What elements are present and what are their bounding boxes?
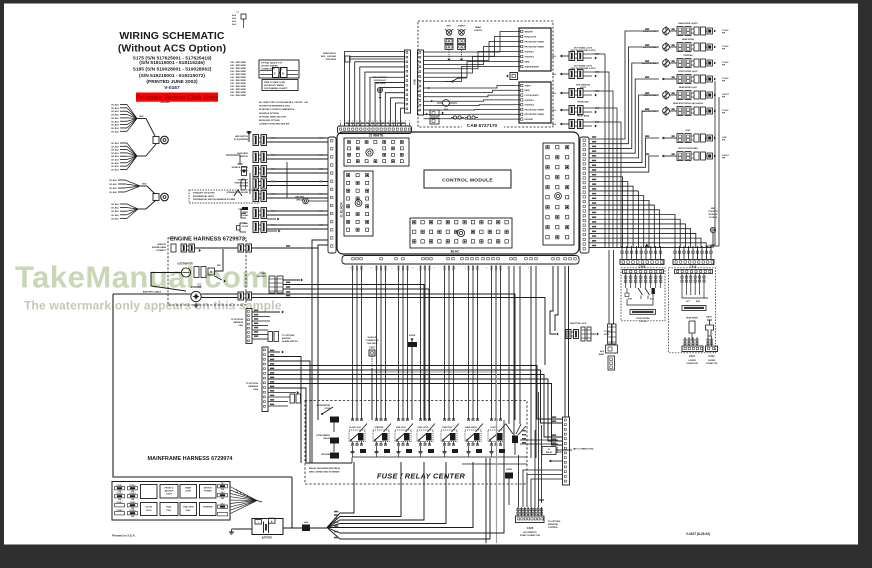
- svg-text:CONNECT: CONNECT: [156, 250, 167, 252]
- svg-text:1: 1: [455, 268, 456, 270]
- svg-text:THIS PAGE: THIS PAGE: [325, 58, 336, 61]
- connector C410 pins: [674, 246, 676, 259]
- engine harness boundary: [168, 238, 246, 305]
- fuel wires: [283, 279, 300, 281]
- cab wire mesh: [424, 32, 514, 53]
- svg-text:161-BLK: 161-BLK: [111, 146, 120, 148]
- svg-text:GLOW PLUG: GLOW PLUG: [349, 427, 361, 429]
- fuse panel: [112, 482, 230, 521]
- connector C409: [620, 260, 664, 265]
- C409 switches: [626, 288, 628, 293]
- connector C426 pins: [517, 507, 519, 516]
- svg-text:START: START: [525, 84, 532, 87]
- starter wires: [202, 293, 239, 295]
- svg-text:FUSE-7: FUSE-7: [117, 502, 123, 504]
- svg-text:TAIL/GATE REAR: TAIL/GATE REAR: [641, 62, 657, 65]
- J2 right fan to lamp rows: [589, 31, 659, 139]
- svg-text:ENGINE HARNESS 6729973: ENGINE HARNESS 6729973: [170, 237, 245, 243]
- J3 grid bottom: [410, 218, 512, 248]
- svg-text:MODULE: MODULE: [368, 337, 377, 339]
- svg-text:1: 1: [465, 268, 466, 270]
- svg-text:HARNESS: HARNESS: [233, 321, 243, 324]
- connector C303: [238, 292, 244, 300]
- svg-text:SHOWN NOT MATED: SHOWN NOT MATED: [264, 84, 285, 87]
- relay ground bus: [352, 456, 527, 458]
- svg-text:161-BLK: 161-BLK: [111, 169, 120, 171]
- svg-text:PULL: PULL: [186, 510, 192, 512]
- mainframe boundary right leg: [291, 478, 293, 528]
- ground symbol battery: [232, 528, 253, 530]
- svg-text:1: 1: [486, 268, 487, 270]
- traction lock feed wire: [550, 266, 556, 334]
- lamp drop wire 2: [707, 97, 719, 248]
- J2 grid right: [543, 143, 574, 245]
- C404 wire to C402 pin3: [268, 375, 562, 438]
- ring terminal 1: [153, 137, 159, 144]
- front wiper module label: [630, 310, 656, 315]
- svg-text:SEE: SEE: [711, 208, 716, 210]
- wire: [120, 162, 127, 164]
- battery distribution fan: [327, 462, 354, 528]
- module right pin strip: [580, 137, 589, 253]
- svg-text:DIFFERENTIAL SWITCH HARNESS ST: DIFFERENTIAL SWITCH HARNESS STONER: [193, 198, 236, 201]
- svg-text:C411: C411: [689, 355, 695, 358]
- C426 feeder wires: [518, 455, 520, 507]
- svg-text:161-BLK: 161-BLK: [111, 215, 120, 217]
- C426 top link: [541, 500, 543, 503]
- svg-text:SWITCH: SWITCH: [204, 487, 212, 489]
- wire: [267, 172, 328, 174]
- svg-text:CA1 - RED WIRE: CA1 - RED WIRE: [230, 61, 246, 64]
- svg-text:FLOW: FLOW: [242, 226, 248, 228]
- svg-text:1: 1: [423, 268, 424, 270]
- svg-text:SYSTEM-1: SYSTEM-1: [525, 100, 534, 102]
- svg-text:ALTERNATOR: ALTERNATOR: [177, 263, 193, 266]
- svg-text:DATA: DATA: [525, 89, 531, 92]
- svg-text:+: +: [271, 520, 273, 524]
- svg-text:TO OPTIONS: TO OPTIONS: [246, 383, 259, 385]
- svg-text:CONNECTOR: CONNECTOR: [686, 363, 698, 365]
- svg-text:FRONT WIPER: FRONT WIPER: [636, 318, 650, 320]
- svg-text:1: 1: [528, 268, 529, 270]
- connector C411: [682, 346, 703, 352]
- left drop pair: [312, 240, 328, 463]
- svg-text:STRAIGHT OR IN-TINE: STRAIGHT OR IN-TINE: [193, 192, 215, 195]
- svg-text:GROUND: GROUND: [525, 119, 534, 121]
- C404 lower connector: [290, 394, 295, 403]
- wire: [267, 224, 328, 226]
- light switch: [453, 78, 458, 81]
- wire: [195, 247, 238, 249]
- fuse panel blank cell: [141, 485, 158, 499]
- svg-text:C407: C407: [369, 347, 375, 350]
- connector C403: [246, 309, 252, 344]
- switch row drop wires: [594, 54, 605, 248]
- fuse panel harness loom: [230, 487, 257, 501]
- svg-text:THERMOSTAT: THERMOSTAT: [234, 182, 248, 185]
- cab to module wire bundle: [345, 52, 406, 127]
- svg-text:CONTROL MODULE: CONTROL MODULE: [442, 178, 493, 184]
- C404 gray wire: [374, 371, 497, 373]
- svg-text:S185 (S/N 519028001 - 51902806: S185 (S/N 519028001 - 519028062): [133, 67, 212, 73]
- fuse panel cell STARTER: [200, 503, 217, 516]
- svg-text:(IF EQUIPPED): (IF EQUIPPED): [234, 139, 248, 141]
- svg-text:161-BLK: 161-BLK: [111, 143, 120, 145]
- svg-text:N-PIN: N-PIN: [604, 334, 610, 336]
- J1 grid left: [344, 171, 373, 236]
- svg-text:HORN: HORN: [506, 469, 512, 471]
- svg-text:PROTECTED POWER: PROTECTED POWER: [525, 41, 545, 43]
- C404 wire 13: [268, 405, 288, 407]
- svg-text:GROUND: GROUND: [321, 454, 330, 456]
- battery: [252, 519, 283, 535]
- cab harness boundary: [418, 21, 553, 127]
- svg-text:LIGHT: LIGHT: [166, 494, 173, 496]
- svg-text:BASE: BASE: [599, 353, 605, 356]
- C404 wire 10: [268, 392, 296, 394]
- svg-text:FUEL: FUEL: [261, 273, 267, 275]
- svg-text:MEMORY: MEMORY: [525, 31, 534, 33]
- svg-text:PROTECTED POWER: PROTECTED POWER: [525, 46, 545, 48]
- timer arrow wire: [267, 218, 276, 220]
- fuse panel cell FRONT &: [160, 485, 178, 499]
- svg-text:GROUND: GROUND: [160, 102, 170, 104]
- fuse panel cell SWITCH: [200, 485, 217, 499]
- svg-text:RUN: RUN: [628, 299, 633, 301]
- connector C409 pins: [621, 246, 623, 259]
- svg-text:START: START: [458, 25, 466, 28]
- svg-text:161-BLK: 161-BLK: [111, 105, 120, 107]
- wire: [137, 155, 146, 157]
- svg-text:161-BLK: 161-BLK: [111, 150, 120, 152]
- timer brace: [241, 209, 246, 218]
- svg-text:TO OPTIONS: TO OPTIONS: [548, 521, 561, 523]
- svg-text:SYSTEM-2: SYSTEM-2: [525, 105, 534, 107]
- svg-text:FRONT BASE: FRONT BASE: [577, 115, 590, 118]
- svg-text:161-BLK: 161-BLK: [111, 125, 120, 127]
- fuse panel cell TRACTION: [180, 503, 197, 516]
- svg-text:161-BLK: 161-BLK: [111, 131, 120, 133]
- svg-text:Printed in U.S.A.: Printed in U.S.A.: [112, 534, 136, 538]
- svg-text:BACKUP: BACKUP: [282, 337, 291, 340]
- svg-text:161-BLK: 161-BLK: [111, 108, 120, 110]
- svg-text:CAB: CAB: [414, 79, 417, 84]
- printable version red banner: [136, 93, 218, 102]
- svg-text:MODULE: MODULE: [709, 214, 718, 216]
- svg-text:AAA: AAA: [232, 23, 237, 26]
- svg-text:LINK: LINK: [304, 522, 309, 524]
- svg-text:FUSE-8: FUSE-8: [117, 510, 123, 512]
- cluster box lower: [519, 82, 551, 123]
- C403 wires: [252, 311, 280, 313]
- svg-text:INSTALLED OPTIONS: INSTALLED OPTIONS: [259, 119, 280, 122]
- ring terminal 2: [153, 194, 159, 201]
- svg-text:ALARM SWITCH: ALARM SWITCH: [282, 340, 298, 343]
- wire arrow up C409: [645, 244, 649, 247]
- connector C402: [563, 417, 570, 485]
- svg-text:STARTER: STARTER: [375, 426, 384, 429]
- svg-text:GND: GND: [139, 116, 144, 118]
- svg-text:CA1 - RED WIRE: CA1 - RED WIRE: [230, 67, 246, 70]
- svg-text:ACC: ACC: [650, 298, 655, 301]
- svg-text:CONNECTOR: CONNECTOR: [706, 363, 718, 365]
- connector C404: [262, 347, 268, 412]
- svg-text:HEAD: HEAD: [475, 26, 482, 29]
- svg-text:FRONT WORK LIGHT: FRONT WORK LIGHT: [678, 71, 698, 73]
- svg-text:MODULE AT: MODULE AT: [374, 79, 386, 82]
- svg-text:J1 BLACK: J1 BLACK: [340, 202, 344, 218]
- svg-text:1: 1: [350, 268, 351, 270]
- svg-text:DATA: DATA: [525, 60, 531, 63]
- wire: [308, 200, 328, 202]
- svg-text:REAR WORK LIGHT: REAR WORK LIGHT: [679, 86, 698, 89]
- svg-text:J1 PAGE: J1 PAGE: [709, 216, 718, 219]
- svg-text:FOR DRAWING CLARITY: FOR DRAWING CLARITY: [264, 87, 288, 90]
- cab accessory block: [430, 110, 439, 116]
- svg-text:STARTER: STARTER: [203, 506, 213, 509]
- svg-text:ATTACHMENT: ATTACHMENT: [316, 434, 330, 437]
- svg-text:CONTROL: CONTROL: [548, 527, 559, 529]
- svg-text:ALL WIRE TORS COLORS ARE BLK,: ALL WIRE TORS COLORS ARE BLK, CIRCUIT - …: [259, 101, 309, 104]
- module top pin strip: [338, 126, 412, 134]
- C404 wire to C402 pin4: [268, 379, 562, 441]
- wire jog: [286, 162, 288, 198]
- svg-text:C412: C412: [709, 355, 716, 358]
- svg-text:161-BLK: 161-BLK: [111, 204, 120, 206]
- wire: [120, 155, 127, 157]
- ground bus left: [306, 412, 352, 463]
- svg-text:FUSE / RELAY CENTER: FUSE / RELAY CENTER: [377, 472, 466, 481]
- svg-text:(ATV CONNECTOR): (ATV CONNECTOR): [573, 448, 594, 451]
- svg-text:PROTECTED POWER: PROTECTED POWER: [525, 114, 545, 116]
- flow fork: [240, 223, 246, 232]
- C404 wire 9: [268, 388, 306, 463]
- wire: [120, 124, 127, 126]
- svg-text:W: W: [548, 449, 550, 451]
- svg-text:CA1 - RED WIRE: CA1 - RED WIRE: [230, 88, 246, 91]
- wire: [267, 181, 328, 183]
- svg-text:KEY: KEY: [447, 26, 452, 28]
- svg-text:CONNECT ATTACHED SIDE PIN: CONNECT ATTACHED SIDE PIN: [259, 123, 290, 126]
- C404 wire 11: [268, 396, 290, 398]
- wire: [138, 208, 146, 210]
- fuse relay right exit wires: [520, 439, 558, 441]
- C404 wire 12: [268, 401, 288, 403]
- wire: [120, 149, 127, 151]
- svg-text:(S/N 518115001 - 518115246): (S/N 518115001 - 518115246): [139, 60, 205, 66]
- svg-text:CA1 - RED WIRE: CA1 - RED WIRE: [230, 70, 246, 73]
- cab fuses: [453, 116, 456, 119]
- svg-text:Printable Version Click Here: Printable Version Click Here: [137, 94, 218, 101]
- svg-text:CA1 - RED WIRE: CA1 - RED WIRE: [230, 94, 246, 97]
- wire: [120, 165, 127, 167]
- connector C410: [673, 260, 714, 265]
- svg-text:161-BLK: 161-BLK: [111, 218, 120, 220]
- svg-text:FUEL: FUEL: [166, 507, 172, 509]
- wire: [120, 152, 127, 154]
- clip row5: [234, 190, 242, 196]
- svg-text:TURN/TAIL: TURN/TAIL: [683, 54, 694, 57]
- fuse panel cell GLOW: [141, 503, 158, 516]
- svg-text:FRONT BAS: FRONT BAS: [577, 101, 589, 104]
- aux relay chip: [505, 473, 513, 479]
- alternator wires: [151, 273, 186, 292]
- svg-text:AAA: AAA: [232, 20, 237, 23]
- J2 right fan to C409: [589, 177, 623, 248]
- cab comb inner: [418, 50, 424, 115]
- wire: [267, 154, 328, 156]
- wire: [120, 104, 127, 106]
- svg-text:161-BLK: 161-BLK: [111, 115, 120, 117]
- svg-text:KEY-SET: KEY-SET: [295, 197, 304, 199]
- wire: [120, 159, 127, 161]
- svg-text:BLAC: BLAC: [451, 250, 461, 254]
- spindle cap: [242, 167, 247, 176]
- wire: [120, 142, 127, 144]
- svg-text:OPTIONAL WIRES FACTORY: OPTIONAL WIRES FACTORY: [259, 115, 287, 118]
- battery positive wire: [283, 527, 302, 529]
- svg-text:MAINFRAME HARNESS 6729974: MAINFRAME HARNESS 6729974: [148, 456, 234, 462]
- svg-text:CA1 - RED WIRE: CA1 - RED WIRE: [230, 91, 246, 94]
- wire: [118, 183, 125, 185]
- svg-text:TYPICAL QUALITY OF: TYPICAL QUALITY OF: [261, 62, 283, 65]
- C410 option box: [669, 268, 716, 353]
- svg-text:WASH: WASH: [706, 316, 712, 319]
- svg-text:TO OPTIONS: TO OPTIONS: [282, 335, 295, 337]
- svg-text:AL/GND: AL/GND: [240, 214, 248, 217]
- wire: [120, 168, 127, 170]
- svg-text:CA1 - RED WIRE: CA1 - RED WIRE: [230, 79, 246, 82]
- wire: [252, 298, 545, 366]
- svg-text:CA1 - RED WIRE: CA1 - RED WIRE: [230, 82, 246, 85]
- svg-text:PLUG: PLUG: [146, 510, 152, 512]
- row1 T-bar: [248, 132, 250, 142]
- svg-text:MOD: MOD: [696, 301, 701, 303]
- svg-text:161-BLK: 161-BLK: [111, 166, 120, 168]
- svg-text:1: 1: [518, 268, 519, 270]
- C402 lower wires: [556, 451, 563, 453]
- wire: [120, 120, 127, 122]
- strip right drop wires: [508, 266, 510, 424]
- wire: [120, 107, 127, 109]
- fuse relay center boundary: [305, 401, 527, 485]
- svg-text:CONTROL: CONTROL: [708, 211, 719, 213]
- svg-text:161-BLK: 161-BLK: [111, 118, 120, 120]
- svg-text:4WD SWITCH: 4WD SWITCH: [235, 135, 248, 138]
- svg-text:FAN: FAN: [444, 108, 449, 111]
- svg-text:The watermark only appears on: The watermark only appears on this sampl…: [24, 299, 282, 313]
- wire: [120, 117, 127, 119]
- legend note box: [262, 80, 298, 91]
- svg-text:161-BLK: 161-BLK: [111, 153, 120, 155]
- fuse panel cell REAR: [180, 485, 197, 499]
- svg-text:SPINDLE CHECK: SPINDLE CHECK: [232, 167, 249, 169]
- svg-text:-: -: [258, 520, 259, 524]
- wire: [267, 141, 328, 143]
- svg-text:1: 1: [413, 268, 414, 270]
- svg-text:TRACTION: TRACTION: [442, 426, 452, 429]
- wire: [267, 137, 328, 139]
- svg-text:161-BLK: 161-BLK: [111, 211, 120, 213]
- svg-text:161-BLK: 161-BLK: [111, 208, 120, 210]
- wire: [120, 127, 127, 129]
- svg-text:AUXILIARY: AUXILIARY: [237, 152, 248, 155]
- wire: [267, 185, 328, 187]
- svg-text:V-0167: V-0167: [164, 85, 180, 91]
- svg-text:1: 1: [434, 268, 435, 270]
- cab comb outer: [405, 50, 411, 113]
- fan wire labels: [334, 511, 338, 513]
- wire: [120, 207, 127, 209]
- svg-text:BOX - LAP BAR: BOX - LAP BAR: [321, 55, 337, 58]
- wire: [267, 210, 328, 212]
- svg-text:STARTER: STARTER: [191, 286, 202, 289]
- svg-text:ARE CONNECTED IN SERIES: ARE CONNECTED IN SERIES: [309, 471, 340, 474]
- wire: [120, 145, 127, 147]
- svg-text:HARNESS: HARNESS: [248, 385, 258, 388]
- svg-text:2-W/259: 2-W/259: [707, 360, 716, 362]
- svg-text:STRAIGHT OR IN-LINE: STRAIGHT OR IN-LINE: [226, 191, 248, 194]
- svg-text:SEE CONTROL: SEE CONTROL: [373, 77, 388, 79]
- wire: [267, 214, 328, 216]
- svg-text:161-BLK: 161-BLK: [111, 128, 120, 130]
- svg-text:CONNECTOR: CONNECTOR: [366, 340, 379, 342]
- svg-text:1: 1: [507, 268, 508, 270]
- lamp drop wire 1: [711, 81, 715, 248]
- svg-text:161-BLK: 161-BLK: [111, 121, 120, 123]
- svg-text:OPTION: OPTION: [639, 321, 647, 323]
- svg-text:CIRCUIT: CIRCUIT: [296, 200, 305, 202]
- svg-text:LIGHT IN REAR: LIGHT IN REAR: [643, 46, 658, 49]
- connector C426: [516, 516, 545, 523]
- svg-text:PULL: PULL: [166, 510, 172, 512]
- svg-text:REAR WORK LIGHTS: REAR WORK LIGHTS: [678, 22, 698, 25]
- svg-text:WORK IN FRNT: WORK IN FRNT: [643, 31, 658, 33]
- aux bracket: [226, 155, 240, 164]
- wire id labels: [592, 136, 596, 138]
- svg-text:CAB 6727170: CAB 6727170: [467, 123, 498, 129]
- svg-text:CLOCK/LIGHTS: CLOCK/LIGHTS: [525, 95, 540, 97]
- svg-text:REAR WIPER: REAR WIPER: [686, 317, 698, 320]
- svg-text:2-W/259: 2-W/259: [687, 360, 696, 362]
- module left pin strip: [328, 137, 336, 253]
- svg-text:START/HEATER: START/HEATER: [525, 65, 540, 68]
- svg-text:BASE MACH: BASE MACH: [465, 426, 477, 429]
- wire: [120, 203, 127, 205]
- svg-text:ATTACHED CONTROLS HARNESS IS: ATTACHED CONTROLS HARNESS IS: [259, 108, 295, 111]
- node GND A: [137, 118, 146, 120]
- svg-text:V-0167 (8-29-02): V-0167 (8-29-02): [686, 532, 710, 536]
- fuse panel cell FUEL: [160, 503, 178, 516]
- fuse F7: [115, 512, 125, 515]
- symbol legend box: [259, 60, 299, 78]
- svg-text:B: B: [282, 73, 284, 76]
- wire: [140, 185, 147, 187]
- svg-text:GND: GND: [142, 184, 147, 186]
- svg-text:1: 1: [476, 268, 477, 270]
- svg-text:POWER: POWER: [204, 491, 212, 493]
- svg-text:GLOW: GLOW: [146, 507, 152, 509]
- svg-text:161-BLK: 161-BLK: [109, 184, 118, 186]
- svg-text:J2 WHITE: J2 WHITE: [369, 134, 384, 138]
- svg-text:RELAY: RELAY: [546, 451, 553, 454]
- relay center drop wires: [503, 420, 505, 455]
- C404 wire 1: [268, 351, 280, 353]
- cluster box upper: [519, 28, 551, 71]
- svg-text:AAA: AAA: [232, 17, 237, 20]
- C404 wire to C402 pin5: [268, 384, 562, 446]
- svg-text:LIGHT: LIGHT: [185, 491, 192, 493]
